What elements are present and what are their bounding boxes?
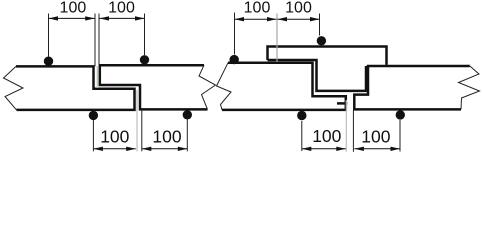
dimension line top-left 100 — [49, 17, 95, 19]
dimension line bottom-right 100 — [142, 148, 188, 150]
fastener dot A2 — [140, 55, 149, 64]
svg-text:100: 100 — [312, 126, 341, 146]
extension line fastener A2 — [144, 14, 146, 56]
left board A outline (Z-splice, left piece) — [16, 66, 135, 110]
svg-text:100: 100 — [60, 0, 87, 17]
svg-text:100: 100 — [108, 0, 135, 17]
dimension line bottom 100 (right diagram left) — [302, 148, 346, 150]
fastener dot on cover — [317, 36, 326, 45]
fastener dot C1 — [230, 55, 239, 64]
extension line joint bottom — [141, 110, 143, 151]
right board D floor stub line — [337, 102, 347, 105]
arrow right tip — [85, 16, 95, 20]
svg-text:100: 100 — [285, 0, 312, 17]
extension line bottom fastener C4 — [399, 120, 401, 152]
extension line fastener A1 — [48, 14, 50, 58]
right board B outline (Z-splice, right piece) — [100, 65, 208, 109]
extension line joint bottom — [352, 110, 354, 152]
svg-text:100: 100 — [152, 127, 181, 147]
arrow right tip — [135, 16, 145, 20]
break line right end of board B — [199, 65, 216, 109]
dimension line bottom 100 (right diagram right) — [354, 148, 400, 150]
right board D outline — [354, 66, 470, 109]
svg-text:100: 100 — [100, 127, 129, 147]
pale joint seam line bottom — [136, 90, 138, 151]
dimension line top 100 (right diagram right) — [278, 18, 320, 20]
break line left end of board A — [4, 66, 24, 110]
extension line fastener cover — [319, 14, 321, 36]
arrow left tip — [100, 16, 110, 20]
extension line bottom fastener A4 — [186, 120, 188, 152]
extension line joint top left — [94, 14, 96, 67]
dimension line top 100 (right diagram left) — [235, 18, 277, 20]
cover strip top slab — [268, 47, 387, 65]
left board C outline — [222, 63, 346, 110]
dimension line bottom-left 100 — [93, 148, 135, 150]
fastener dot C4 bottom — [396, 110, 405, 119]
svg-text:100: 100 — [361, 126, 390, 146]
fastener dot A3 bottom — [89, 111, 98, 120]
pale joint seam bottom — [345, 100, 347, 152]
break line left end of board C — [217, 63, 232, 110]
fastener dot C3 bottom — [297, 111, 306, 120]
extension line bottom fastener A3 — [92, 120, 94, 151]
extension line joint top right — [98, 14, 100, 66]
pale joint seam line top — [96, 66, 98, 88]
extension line fastener C1 — [234, 13, 236, 55]
fastener dot A4 bottom — [183, 110, 192, 119]
cover strip flange bottom and stem — [268, 60, 367, 91]
dimension line top-right 100 — [100, 17, 145, 19]
arrow left tip — [49, 16, 59, 20]
extension line bottom fastener C3 — [301, 121, 303, 151]
svg-text:100: 100 — [244, 0, 271, 17]
break line right end of board D — [459, 66, 480, 109]
fastener dot A1 — [44, 57, 53, 66]
pale extension line mid — [276, 14, 278, 63]
